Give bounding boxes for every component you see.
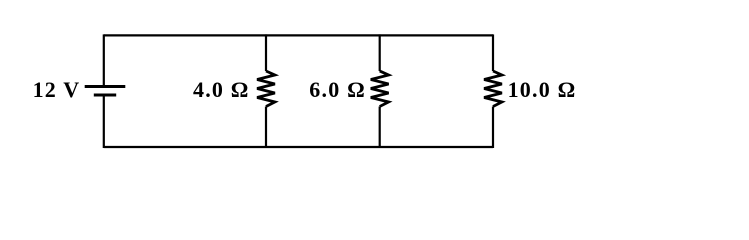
- wire left branch lower segment: [103, 95, 105, 148]
- wire top rail: [104, 34, 493, 36]
- resistor R3 zigzag: [484, 71, 502, 107]
- wire R2 branch lower segment: [379, 107, 381, 149]
- wire R1 branch upper segment: [265, 34, 267, 71]
- wire bottom rail: [104, 146, 493, 148]
- wire R3 branch lower segment: [492, 107, 494, 149]
- svg-text:12 V: 12 V: [33, 77, 81, 102]
- battery B1 12 V: [85, 87, 126, 96]
- label 4.0 ohm: [193, 77, 250, 102]
- resistor R1 zigzag: [257, 71, 275, 107]
- wire R1 branch lower segment: [265, 107, 267, 149]
- wire R3 branch upper segment: [492, 34, 494, 71]
- resistor R2 zigzag: [371, 71, 389, 107]
- wire left branch upper segment: [103, 34, 105, 86]
- svg-text:10.0 Ω: 10.0 Ω: [508, 77, 577, 102]
- label 10.0 ohm: [508, 77, 577, 102]
- label 12 V: [33, 77, 81, 102]
- label 6.0 ohm: [309, 77, 366, 102]
- svg-text:4.0 Ω: 4.0 Ω: [193, 77, 250, 102]
- wire R2 branch upper segment: [379, 34, 381, 71]
- svg-text:6.0 Ω: 6.0 Ω: [309, 77, 366, 102]
